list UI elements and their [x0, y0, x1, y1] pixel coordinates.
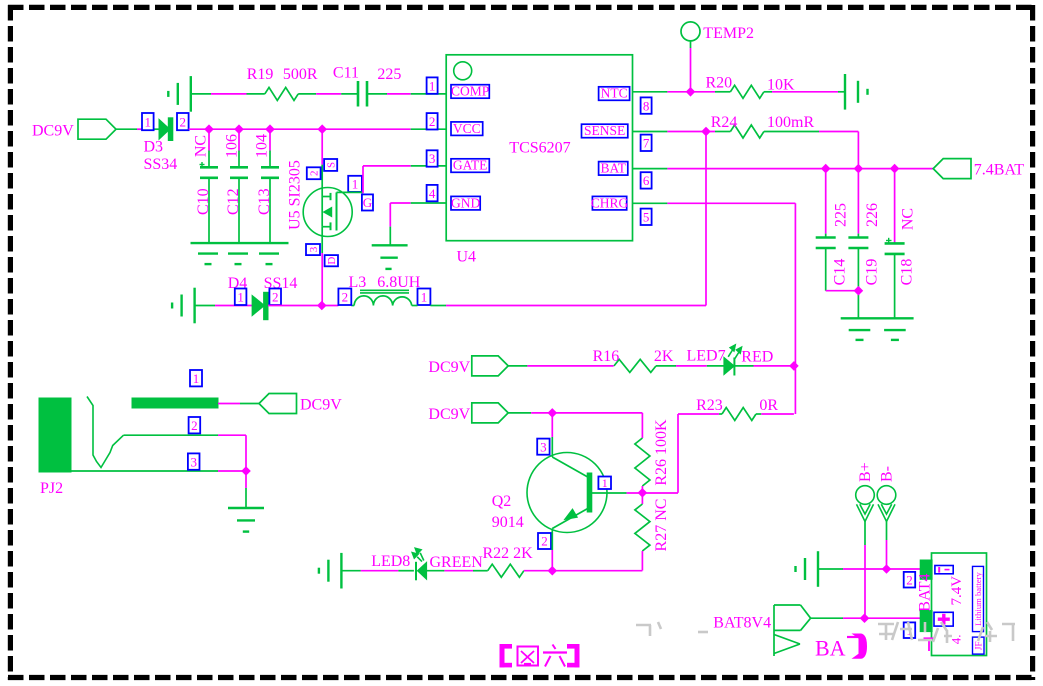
svg-text:2: 2: [272, 289, 279, 304]
pin 2 of D4: [269, 289, 281, 306]
svg-text:9014: 9014: [492, 514, 524, 531]
pin BAT of U4: [599, 161, 628, 176]
svg-text:DC9V: DC9V: [32, 123, 74, 140]
wire CHRG: [633, 203, 796, 414]
svg-text:RED: RED: [741, 349, 773, 366]
node: [860, 613, 870, 623]
label mark: [924, 638, 935, 652]
pin 3 of U4: [427, 150, 438, 166]
wire: [427, 570, 488, 572]
svg-text:C12: C12: [225, 188, 242, 215]
label BAT-: [815, 634, 867, 661]
svg-text:NC: NC: [900, 208, 917, 230]
wire VCC rail: [189, 128, 447, 130]
node: [686, 87, 696, 97]
ground: [191, 243, 289, 264]
connector BAT8V4: [713, 605, 810, 656]
svg-text:R24: R24: [711, 114, 738, 131]
svg-text:500R: 500R: [283, 66, 318, 83]
svg-text:5: 5: [643, 209, 650, 224]
svg-text:7.4V: 7.4V: [949, 576, 965, 606]
svg-text:2: 2: [342, 289, 349, 304]
svg-text:R27 NC: R27 NC: [653, 499, 670, 552]
svg-text:DC9V: DC9V: [428, 406, 470, 423]
pin 1 of U4: [427, 77, 438, 93]
svg-text:BAT4: BAT4: [917, 573, 934, 611]
svg-text:2: 2: [191, 418, 198, 433]
svg-text:7: 7: [643, 135, 650, 150]
resistor R22: [483, 545, 534, 577]
svg-text:226: 226: [864, 203, 881, 227]
label Lithium battery: [973, 566, 984, 631]
svg-text:1: 1: [429, 78, 436, 93]
wire: [764, 91, 845, 93]
pin 3 of Q2: [537, 439, 549, 455]
ground: [168, 76, 191, 112]
op-amp U4: [446, 55, 632, 266]
node: [890, 164, 900, 174]
port DC9V: [428, 403, 508, 423]
capacitor C18: [885, 169, 917, 319]
pin S of U5: [324, 159, 338, 171]
diode D3: [144, 118, 178, 173]
wire B-: [886, 522, 888, 570]
node: [241, 466, 251, 476]
svg-text:2: 2: [541, 534, 548, 549]
wire: [321, 129, 323, 196]
svg-text:106: 106: [224, 134, 241, 158]
wire: [551, 529, 553, 571]
pin 2 of PJ2: [189, 417, 201, 433]
svg-text:C19: C19: [864, 259, 881, 286]
pin 1 of U5: [348, 176, 362, 192]
pin COMP of U4: [451, 84, 489, 99]
svg-text:R16: R16: [593, 348, 620, 365]
wire: [268, 305, 338, 307]
svg-text:TCS6207: TCS6207: [509, 140, 570, 157]
svg-text:104: 104: [254, 134, 271, 158]
pin 4 of U4: [427, 185, 438, 201]
port B+: [856, 462, 875, 521]
node: [547, 408, 557, 418]
wire drain: [321, 227, 323, 306]
svg-text:R23: R23: [696, 397, 723, 414]
node: [854, 286, 864, 296]
resistor R24: [711, 114, 815, 138]
node: [789, 361, 799, 371]
wire: [412, 132, 706, 306]
svg-text:R26 100K: R26 100K: [653, 419, 670, 486]
port DC9V: [32, 119, 116, 139]
svg-text:3: 3: [308, 246, 320, 252]
wire: [633, 131, 731, 133]
svg-text:LED8: LED8: [371, 553, 410, 570]
resistor R26: [635, 419, 670, 493]
svg-text:225: 225: [377, 66, 401, 83]
svg-text:C13: C13: [256, 188, 273, 215]
node: [317, 124, 327, 134]
node: [854, 164, 864, 174]
pin 7 of U4: [641, 135, 652, 151]
pin NTC of U4: [599, 86, 630, 101]
wire BAT: [633, 168, 934, 170]
svg-text:BAT: BAT: [600, 161, 626, 176]
port B-: [877, 466, 896, 522]
ground: [372, 245, 408, 269]
pin 2 of U4: [427, 113, 438, 129]
node: [317, 301, 327, 311]
pin G of U5: [362, 194, 373, 210]
capacitor C14: [816, 169, 859, 291]
wire: [508, 413, 642, 438]
wire: [195, 305, 253, 307]
transistor Q2: [492, 453, 627, 533]
svg-text:DC9V: DC9V: [428, 359, 470, 376]
wire: [191, 93, 265, 95]
capacitor C19: [848, 169, 881, 319]
wire gate: [337, 166, 447, 193]
svg-text:6: 6: [643, 173, 650, 188]
svg-text:LED7: LED7: [687, 348, 726, 365]
pin 2 of Q2: [538, 533, 551, 549]
svg-text:2K: 2K: [654, 348, 674, 365]
svg-text:SENSE: SENSE: [584, 123, 625, 138]
label figure six: [500, 644, 580, 667]
capacitor C13: [254, 129, 280, 243]
svg-text:NC: NC: [192, 135, 209, 157]
svg-text:S: S: [326, 162, 338, 168]
svg-text:GREEN: GREEN: [430, 554, 484, 571]
wire: [818, 568, 920, 570]
watermark: [636, 622, 1015, 643]
svg-text:1: 1: [602, 476, 608, 490]
wire: [390, 203, 446, 245]
wire: [811, 617, 921, 619]
node: [265, 124, 275, 134]
pin CHRG of U4: [591, 195, 629, 210]
wire B+: [864, 522, 866, 619]
svg-text:2: 2: [309, 171, 321, 177]
svg-text:3: 3: [190, 454, 197, 469]
battery BT1: [917, 553, 987, 656]
svg-text:GATE: GATE: [453, 158, 488, 173]
wire: [627, 492, 678, 494]
wire: [734, 365, 794, 367]
wire: [508, 365, 614, 367]
svg-text:GND: GND: [451, 195, 480, 210]
node: [638, 488, 648, 498]
ground: [228, 508, 264, 532]
pin 2 of battery: [904, 572, 916, 588]
pin D of U5: [325, 255, 339, 266]
pin 3 of U5: [306, 244, 320, 255]
svg-text:1: 1: [352, 177, 359, 192]
svg-text:8: 8: [643, 98, 650, 113]
node: [204, 124, 214, 134]
node: [821, 164, 831, 174]
wire: [218, 403, 259, 405]
svg-text:R22 2K: R22 2K: [483, 545, 534, 562]
svg-text:U5 SI2305: U5 SI2305: [287, 160, 304, 230]
pin 8 of U4: [641, 97, 652, 113]
svg-text:R20: R20: [706, 75, 733, 92]
wire: [341, 570, 414, 572]
port TEMP2: [681, 22, 754, 48]
svg-text:1: 1: [421, 289, 428, 304]
ground: [841, 318, 914, 340]
pin 1 of D4: [235, 289, 247, 306]
svg-text:BA: BA: [815, 636, 846, 661]
pin 1 of battery: [904, 622, 916, 638]
wire: [116, 128, 159, 130]
resistor R19: [247, 66, 318, 100]
svg-text:6.8UH: 6.8UH: [377, 274, 421, 291]
wire: [367, 93, 446, 95]
svg-text:VCC: VCC: [453, 121, 481, 136]
wire: [764, 132, 859, 169]
svg-text:R19: R19: [247, 66, 274, 83]
svg-text:NTC: NTC: [601, 86, 628, 101]
wire: [218, 435, 246, 508]
pin 5 of U4: [641, 209, 652, 225]
svg-text:225: 225: [833, 203, 850, 227]
svg-text:3: 3: [429, 151, 436, 166]
ground: [796, 551, 819, 587]
wire: [633, 48, 731, 92]
svg-text:DC9V: DC9V: [300, 397, 342, 414]
svg-text:PJ2: PJ2: [40, 480, 63, 497]
wire: [656, 365, 724, 367]
resistor R20: [706, 75, 796, 99]
svg-text:JF: JF: [974, 641, 984, 650]
svg-text:2: 2: [180, 114, 187, 129]
svg-text:2: 2: [429, 114, 436, 129]
resistor R27: [635, 493, 670, 571]
pin VCC of U4: [451, 121, 483, 136]
svg-text:D: D: [326, 257, 338, 265]
diode D4: [228, 275, 298, 320]
svg-text:C14: C14: [832, 259, 849, 286]
svg-text:C10: C10: [195, 188, 212, 215]
pin 1 of D3: [142, 113, 154, 130]
LED LED8: [371, 548, 483, 580]
svg-text:COMP: COMP: [451, 84, 489, 99]
svg-text:10K: 10K: [767, 77, 795, 94]
inductor L3: [349, 274, 421, 306]
pin 2 of D3: [177, 113, 189, 130]
ground: [319, 553, 342, 589]
label JF: [973, 637, 985, 654]
wire: [524, 570, 643, 572]
svg-text:4: 4: [429, 186, 436, 201]
ground: [172, 288, 195, 324]
svg-text:Lithium battery: Lithium battery: [973, 571, 983, 625]
svg-text:G: G: [363, 195, 372, 210]
capacitor C11: [333, 65, 402, 107]
svg-text:B-: B-: [879, 466, 896, 482]
pin 3 of PJ2: [188, 453, 200, 469]
pin GND of U4: [451, 195, 480, 210]
wire: [298, 93, 358, 95]
svg-text:1: 1: [237, 289, 244, 304]
port 7.4BAT: [933, 159, 1024, 179]
svg-text:0R: 0R: [759, 397, 778, 414]
svg-text:BAT8V4: BAT8V4: [713, 615, 771, 632]
node: [234, 124, 244, 134]
svg-text:1: 1: [193, 371, 200, 386]
pin GATE of U4: [451, 158, 489, 173]
LED LED7: [687, 344, 774, 375]
svg-text:B+: B+: [857, 462, 874, 482]
resistor R16: [593, 348, 674, 372]
pin 1 of L3: [418, 289, 431, 306]
svg-text:TEMP2: TEMP2: [703, 25, 754, 42]
polarity mark C10: [200, 162, 205, 167]
svg-text:1: 1: [145, 114, 152, 129]
svg-text:C18: C18: [899, 259, 916, 286]
svg-text:Q2: Q2: [492, 493, 512, 510]
svg-text:U4: U4: [457, 249, 477, 266]
pin 1 of PJ2: [190, 370, 202, 386]
pin 2 of U5: [307, 167, 321, 179]
svg-text:2: 2: [906, 572, 913, 587]
node: [882, 564, 892, 574]
wire: [551, 413, 553, 457]
pin 6 of U4: [641, 172, 652, 188]
port DC9V: [428, 356, 508, 376]
pin 2 of L3: [338, 289, 351, 306]
pin 1 of Q2: [598, 476, 611, 490]
svg-text:100mR: 100mR: [767, 114, 814, 131]
transistor U5: [287, 160, 353, 236]
node: [701, 127, 711, 137]
wire: [677, 414, 679, 493]
pin SENSE of U4: [582, 123, 628, 138]
svg-text:7.4BAT: 7.4BAT: [974, 162, 1024, 179]
port DC9V: [259, 394, 342, 414]
svg-text:D3: D3: [144, 139, 164, 156]
resistor R23: [678, 397, 794, 421]
svg-text:CHRG: CHRG: [591, 195, 629, 210]
node: [547, 566, 557, 576]
svg-text:SS34: SS34: [144, 156, 178, 173]
capacitor C10: [192, 129, 218, 243]
ground: [845, 74, 868, 110]
capacitor C12: [224, 129, 249, 243]
connector PJ2: [39, 397, 218, 498]
svg-text:3: 3: [540, 439, 547, 454]
svg-text:C11: C11: [333, 65, 359, 82]
